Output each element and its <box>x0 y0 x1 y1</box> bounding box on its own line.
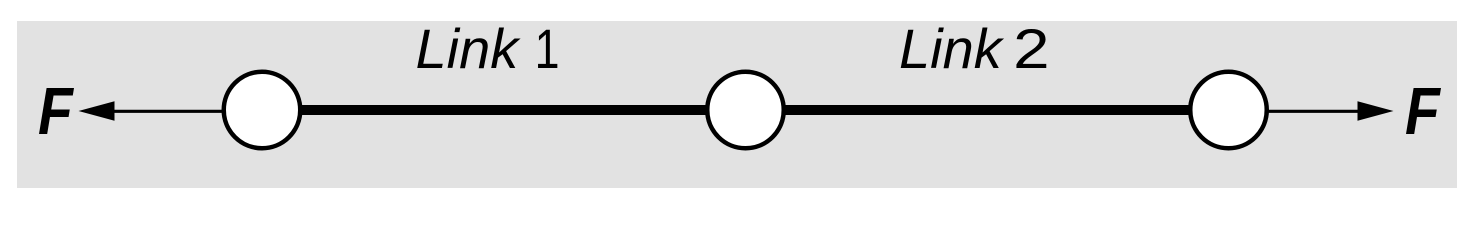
svg-text:F: F <box>38 75 75 149</box>
svg-text:2: 2 <box>1013 17 1049 79</box>
svg-text:F: F <box>1405 75 1442 149</box>
svg-text:Link: Link <box>899 17 1005 80</box>
link 2 bar <box>746 105 1229 115</box>
svg-text:1: 1 <box>535 17 560 80</box>
right arrowhead <box>1358 101 1394 120</box>
pin joint A <box>224 72 301 149</box>
background panel <box>17 21 1457 188</box>
pin joint B <box>707 72 784 149</box>
pin joint C <box>1190 72 1267 149</box>
label Link 2 <box>899 17 1050 80</box>
right force line <box>1229 110 1371 113</box>
svg-text:Link: Link <box>416 17 522 80</box>
left force line <box>100 110 262 113</box>
label Link 1 <box>416 17 560 80</box>
left arrowhead <box>79 101 115 120</box>
link 1 bar <box>262 105 746 115</box>
